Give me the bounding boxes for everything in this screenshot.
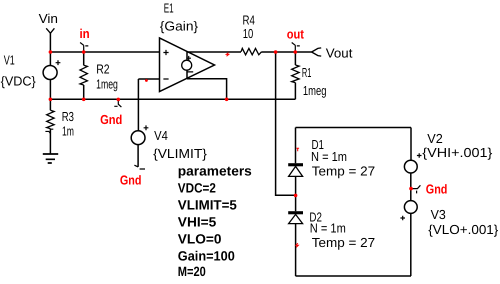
svg-text:1meg: 1meg [96, 77, 118, 92]
svg-text:1m: 1m [62, 124, 74, 139]
svg-text:Gnd: Gnd [426, 182, 448, 197]
svg-text:E1: E1 [164, 1, 174, 16]
svg-text:in: in [80, 26, 90, 41]
svg-text:V3: V3 [431, 207, 446, 222]
svg-text:{VLIMIT}: {VLIMIT} [153, 146, 208, 161]
svg-text:{VHI+.001}: {VHI+.001} [422, 145, 493, 160]
svg-text:Vout: Vout [326, 46, 353, 61]
svg-text:V2: V2 [427, 131, 443, 146]
svg-text:VDC=2: VDC=2 [178, 181, 216, 196]
svg-text:R2: R2 [96, 61, 109, 76]
svg-text:Gain=100: Gain=100 [178, 248, 235, 263]
svg-text:{VLO+.001}: {VLO+.001} [428, 222, 499, 237]
svg-text:N = 1m: N = 1m [310, 220, 346, 235]
svg-text:VLIMIT=5: VLIMIT=5 [178, 198, 237, 213]
svg-text:Temp = 27: Temp = 27 [312, 164, 375, 179]
svg-text:VHI=5: VHI=5 [178, 215, 217, 230]
svg-text:V4: V4 [154, 128, 168, 143]
svg-text:R1: R1 [302, 65, 312, 80]
svg-text:{VDC}: {VDC} [1, 73, 37, 88]
svg-text:Gnd: Gnd [100, 112, 122, 127]
svg-text:Vin: Vin [39, 11, 58, 26]
svg-text:Gnd: Gnd [120, 173, 142, 188]
svg-text:10: 10 [243, 26, 254, 41]
svg-text:Temp = 27: Temp = 27 [312, 235, 375, 250]
svg-text:out: out [287, 27, 305, 42]
svg-text:M=20: M=20 [178, 264, 206, 279]
svg-text:{Gain}: {Gain} [160, 19, 199, 34]
svg-text:parameters: parameters [178, 163, 252, 178]
svg-text:V1: V1 [4, 52, 15, 67]
svg-text:1meg: 1meg [303, 83, 327, 98]
svg-text:N = 1m: N = 1m [311, 149, 347, 164]
svg-text:R3: R3 [62, 109, 74, 124]
svg-text:VLO=0: VLO=0 [178, 231, 222, 246]
